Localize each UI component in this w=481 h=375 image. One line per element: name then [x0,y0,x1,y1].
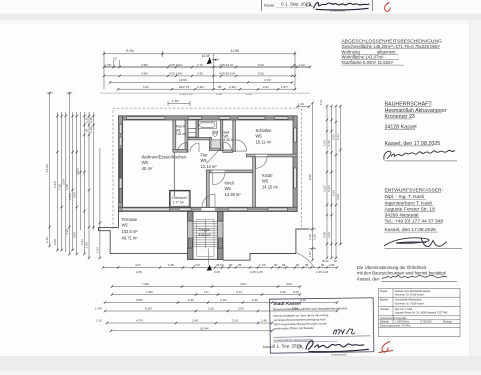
svg-text:3.00: 3.00 [293,290,299,294]
svg-text:90: 90 [85,128,89,132]
svg-text:1.52: 1.52 [280,290,286,294]
bottom stamp signature [306,340,369,352]
svg-text:⅓75.13⅓²: ⅓75.13⅓² [169,63,183,67]
svg-text:3.04: 3.04 [61,179,65,185]
svg-text:2.20: 2.20 [208,307,214,311]
svg-text:1.00: 1.00 [313,234,317,240]
svg-text:genehmigten Plänen der Bauakte: genehmigten Plänen der Bauakte [274,326,314,331]
svg-text:Gezeichnet: 03.Copro.Ba.: Gezeichnet: 03.Copro.Ba. [380,317,407,320]
bathtub [198,122,217,129]
svg-text:3.10: 3.10 [232,319,238,323]
svg-text:2.25 2.01: 2.25 2.01 [316,270,329,274]
svg-text:Auguste-Förster-Str. 18, 34266: Auguste-Förster-Str. 18, 34266 Niestetal… [395,312,448,315]
svg-text:1.76²: 1.76² [105,63,112,67]
svg-text:1.63: 1.63 [323,140,327,146]
svg-text:1.26 1.26: 1.26 1.26 [180,92,193,96]
svg-text:7.08²: 7.08² [142,282,149,286]
svg-text:2.25: 2.25 [136,270,142,274]
svg-text:4.04: 4.04 [72,192,76,198]
svg-text:Wohnen/Essen/Kochen: Wohnen/Essen/Kochen [142,154,187,159]
svg-text:3.14: 3.14 [336,134,340,140]
svg-text:Hiermit bestätigen wir, dass d: Hiermit bestätigen wir, dass die für den… [273,313,328,318]
black arrow on chain A [207,265,212,271]
bottom dimension chain D [105,302,337,304]
svg-text:2.25: 2.25 [214,270,220,274]
interior wall Wohnen/AbstR vertical [173,120,176,197]
KindII left wall [253,157,256,207]
Schlafen/KindII bottom wall [246,154,297,157]
svg-text:3.22²: 3.22² [323,185,327,192]
terrace outline right [223,229,309,260]
bottom dimension chain E [105,310,337,312]
outer wall top [119,116,298,120]
KindI left wall [206,170,209,207]
Bad door arc [190,143,199,152]
svg-text:15.11 m²: 15.11 m² [256,139,272,144]
svg-text:2.61 m²: 2.61 m² [176,132,187,136]
left vertical dimension chains [47,93,100,258]
svg-text:2.70: 2.70 [197,63,203,67]
bottom dimension chain B [112,286,300,288]
Bauherr signature [384,150,457,161]
svg-text:Schlafen: Schlafen [256,128,273,133]
svg-text:1:100/Größen: 1:100/Größen [395,321,410,324]
svg-text:11.99: 11.99 [231,49,239,53]
svg-text:Stadt Kassel: Stadt Kassel [273,301,301,306]
interior wall AbstR bottom [173,149,188,152]
svg-text:KindI: KindI [225,181,234,186]
room label KindI [225,181,242,197]
svg-text:Wohnung: Wohnung [342,49,361,54]
svg-text:Dipl.-Ing. T. Kasli: Dipl.-Ing. T. Kasli [395,309,413,311]
room label Wohnen [142,154,187,170]
svg-text:Geschossfläche 145,20m²*=171,7: Geschossfläche 145,20m²*=171,79=0,75x229… [342,44,441,49]
svg-text:60/2.75: 60/2.75 [179,85,189,89]
entry door arc to stair [202,194,215,207]
svg-text:2.20: 2.20 [188,298,194,302]
svg-text:3.87²: 3.87² [76,168,80,175]
outer wall left [119,116,123,212]
svg-text:2.36²: 2.36² [197,85,204,89]
svg-text:Kassel,: Kassel, [264,4,275,8]
svg-text:4.71²: 4.71² [136,319,143,323]
svg-text:17²: 17² [204,290,208,294]
svg-text:1.36²: 1.36² [89,126,93,133]
svg-text:13.38 m²: 13.38 m² [225,192,242,197]
bottom dimension chain A [103,267,337,269]
svg-text:4.36: 4.36 [336,194,340,200]
svg-text:⅓75.90.1⅓²: ⅓75.90.1⅓² [219,72,235,76]
Stadt Kassel stamp box [262,298,374,358]
svg-text:1.02: 1.02 [299,63,305,67]
svg-text:1.25: 1.25 [85,117,89,123]
svg-text:1.67²: 1.67² [281,85,288,89]
svg-text:5.86²: 5.86² [136,298,143,302]
svg-text:1.00: 1.00 [85,242,89,248]
svg-text:1.26: 1.26 [216,92,222,96]
svg-text:4.36²: 4.36² [141,72,148,76]
top stamp signature [314,3,370,10]
svg-text:3.45: 3.45 [65,184,69,190]
svg-text:90: 90 [293,63,297,67]
svg-text:W5: W5 [201,158,208,163]
svg-text:auf Abgeschlossenheitsbeschein: auf Abgeschlossenheitsbescheinigung nach [273,317,326,322]
dimension chain top T4 [110,81,292,83]
svg-text:4.04: 4.04 [72,232,76,238]
svg-text:90: 90 [321,263,325,267]
Entwurfsverfasser block [385,188,444,233]
svg-text:2.92: 2.92 [197,72,203,76]
outer wall right [293,116,297,212]
small bracket dim 1.10 above top wall [168,101,190,106]
stair treads [193,220,218,266]
Bauherrschaft block [385,102,447,147]
svg-text:1.76²: 1.76² [95,307,102,311]
stair landing box [197,219,215,256]
stair shaft walls [188,212,223,260]
svg-text:Projekt: Projekt [380,290,388,293]
svg-text:⅓75.13⅓²: ⅓75.13⅓² [169,72,183,76]
svg-text:3.74²: 3.74² [264,78,271,82]
svg-text:96: 96 [282,263,286,267]
svg-text:Fahrstuhl: Fahrstuhl [172,196,186,200]
north/level marker arrow [202,54,220,64]
dimension chain top T1 [104,51,295,89]
Schlafen left wall [223,120,236,152]
svg-text:2.93: 2.93 [80,239,84,245]
right vertical dimension chains [309,103,341,260]
KindI top wall [206,170,252,173]
svg-text:2.30: 2.30 [308,234,312,240]
room label Fahrstuhl [172,196,186,204]
title block table [379,289,461,337]
svg-text:2.03: 2.03 [194,263,200,267]
svg-text:14.15 m²: 14.15 m² [262,184,279,189]
svg-text:W5: W5 [262,179,269,184]
svg-text:1.63: 1.63 [327,140,331,146]
svg-text:8.15²: 8.15² [145,307,152,311]
room label Flur [201,153,218,169]
dimension chain top T2 [104,66,310,68]
top cut-off stamp remnant [261,0,372,13]
svg-text:6.40 m²: 6.40 m² [224,138,235,142]
exterior ramp arc [297,253,315,268]
svg-text:Wohnfläche 141,07m²: Wohnfläche 141,07m² [342,55,385,60]
svg-text:12.00: 12.00 [45,164,49,172]
KindII door arc [256,157,268,169]
dimension chain top T3 [104,75,295,77]
svg-text:1.10²: 1.10² [172,99,179,103]
svg-text:1.68: 1.68 [168,263,174,267]
Abgeschlossenheitsbescheinigung block [342,38,443,65]
svg-text:4.34: 4.34 [332,190,336,196]
svg-text:allgemein: allgemein [377,49,396,54]
svg-text:1.10: 1.10 [298,102,304,106]
svg-text:96: 96 [238,263,242,267]
svg-text:2.25: 2.25 [246,92,252,96]
red mark bottom [379,342,394,353]
svg-text:7.36²: 7.36² [146,290,153,294]
interior wall AbstR right vertical [185,120,188,152]
svg-text:40 m²: 40 m² [142,166,154,171]
svg-text:2.20: 2.20 [252,298,258,302]
svg-text:16.34²: 16.34² [200,326,209,330]
bottom dimension chain F [107,322,272,324]
svg-text:8.80 m²: 8.80 m² [199,233,212,237]
room label Schlafen [256,128,273,144]
shaft walls beside Bad [188,120,199,140]
svg-text:W5: W5 [142,160,149,165]
svg-text:3.10²: 3.10² [220,298,227,302]
room label Treppe [199,228,212,237]
svg-text:90: 90 [229,263,233,267]
svg-text:4.51²: 4.51² [240,282,247,286]
svg-text:W5: W5 [256,134,263,139]
svg-text:13.55: 13.55 [179,78,187,82]
svg-text:4.30: 4.30 [65,229,69,235]
svg-text:2.81: 2.81 [329,263,335,267]
svg-text:2.10: 2.10 [45,237,49,243]
svg-text:Planlage: Planlage [443,322,453,324]
svg-text:1.77 m²: 1.77 m² [172,201,184,205]
svg-text:Zeichnungsnummer: VS SPG_: Zeichnungsnummer: VS SPG_ [380,324,412,327]
svg-text:Flur: Flur [201,153,209,158]
svg-text:9.76²: 9.76² [126,49,135,53]
bottom dimension chain C [112,294,300,296]
svg-text:3.22²: 3.22² [327,185,331,192]
small bracket dim right top [298,106,310,108]
svg-text:102.5 m²: 102.5 m² [122,229,139,234]
svg-text:96: 96 [305,263,309,267]
svg-text:Kronenstr. 42, 34128 Kassel: Kronenstr. 42, 34128 Kassel [395,302,424,305]
svg-text:17.08.2025: 17.08.2025 [420,322,432,324]
svg-text:Neubau eines Mehrfamilienhause: Neubau eines Mehrfamilienhauses [395,290,431,293]
svg-text:KindII: KindII [262,173,272,178]
svg-text:2.36²: 2.36² [229,85,236,89]
Entwurfsverfasser signature [384,238,462,249]
svg-text:4.38: 4.38 [323,232,327,238]
door arc AbstR [178,143,188,153]
svg-text:i.A.: i.A. [297,344,304,350]
room label Terrasse [122,217,139,240]
svg-text:90: 90 [296,263,300,267]
Bad bottom wall with jog [188,120,223,151]
svg-text:mit den Bauzeichnungen wird hi: mit den Bauzeichnungen wird hiermit best… [357,271,446,276]
roof overhang dashed outline [113,108,302,229]
svg-text:14.49: 14.49 [202,54,210,58]
outer wall bottom [119,207,298,211]
svg-text:Maßstab: Maßstab [380,321,390,324]
svg-text:WEG eingereichten Bauzeichnung: WEG eingereichten Bauzeichnungen mit den [273,321,327,326]
shower hatched [211,140,221,148]
svg-text:2.63: 2.63 [238,307,244,311]
svg-text:1.07: 1.07 [96,247,100,253]
handwritten date + underline [381,275,457,281]
room label Bad [224,131,235,143]
svg-text:Die Übereinstimmung der Örtlic: Die Übereinstimmung der Örtlichkeit [357,265,427,270]
svg-text:90: 90 [274,263,278,267]
svg-text:Terrasse: Terrasse [122,217,138,222]
svg-text:W5: W5 [225,186,232,191]
svg-text:3.00: 3.00 [286,282,292,286]
svg-text:W5: W5 [122,223,129,228]
svg-text:Kronenstr. 19, 34128 Kassel: Kronenstr. 19, 34128 Kassel [395,294,424,297]
svg-text:1.25: 1.25 [89,117,93,123]
svg-text:1.10: 1.10 [96,319,102,323]
terrace outline left [99,212,188,254]
Schlafen door arc [235,140,246,151]
WC [213,131,218,136]
svg-text:1.73²: 1.73² [259,263,266,267]
KindI door arc [213,173,225,185]
svg-text:4.34: 4.34 [327,232,331,238]
svg-text:46,60: 46,60 [216,263,224,267]
Ortlichkeit confirmation text [357,265,446,282]
svg-text:12.14 m²: 12.14 m² [201,164,218,169]
svg-text:⅓75.10.⅓²: ⅓75.10.⅓² [219,63,233,67]
red mark top [385,3,390,12]
svg-text:Nutzfläche 0,00m² 11,62m²: Nutzfläche 0,00m² 11,62m² [342,60,394,65]
svg-text:1.13: 1.13 [319,99,323,105]
svg-text:49.71 m²: 49.71 m² [122,235,139,240]
faint scan line [100,92,310,94]
room label KindII [262,173,279,189]
svg-text:8.50: 8.50 [308,174,312,180]
entry door leaf diagonal [207,149,220,163]
svg-text:4.36²: 4.36² [141,63,148,67]
svg-text:5.02: 5.02 [258,72,264,76]
svg-text:2.01: 2.01 [332,134,336,140]
svg-text:4.13: 4.13 [236,290,242,294]
svg-text:Bauherr: Bauherr [380,299,388,302]
svg-text:Treppe: Treppe [199,228,210,232]
svg-text:90: 90 [114,56,118,60]
corridor door arc [223,142,231,150]
svg-text:Hesmatollah Akhavanpoor: Hesmatollah Akhavanpoor [395,299,422,302]
svg-text:2.40: 2.40 [261,319,267,323]
svg-text:2.01: 2.01 [263,85,269,89]
dimension chain top T5 [118,88,295,90]
svg-text:5.41: 5.41 [143,85,149,89]
handwritten file number [333,328,355,335]
svg-text:(Unterschrift): (Unterschrift) [331,352,346,356]
svg-text:5.02: 5.02 [258,63,264,67]
svg-text:2.49: 2.49 [192,319,198,323]
room label AbstR [176,125,187,137]
svg-text:Kassel, den: Kassel, den [357,276,380,281]
Fahrstuhl room [170,191,190,208]
bottom dimension chain G [111,330,272,332]
svg-text:1.87: 1.87 [308,251,312,257]
svg-text:i.A.: i.A. [306,3,313,9]
svg-text:2.25 2.26: 2.25 2.26 [250,270,263,274]
svg-text:4.01: 4.01 [135,263,141,267]
90 bracket [114,60,120,67]
svg-text:Architekt: Architekt [380,308,389,311]
svg-text:95: 95 [218,85,222,89]
svg-text:3.68: 3.68 [53,239,57,245]
